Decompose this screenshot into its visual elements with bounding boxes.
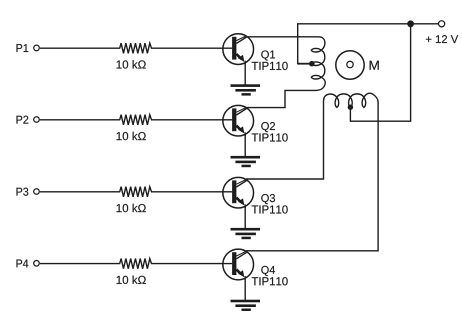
- node P2 input terminal label: [17, 116, 29, 124]
- junction dot winding L2 center tap: [348, 105, 353, 110]
- transistor Q2 collector double line: [236, 108, 246, 113]
- transistor Q3 base bar: [232, 180, 236, 203]
- terminal P4 open circle: [34, 261, 40, 267]
- wire P2 to base with resistor R2 zigzag: [40, 115, 232, 125]
- transistor Q1 base bar: [232, 37, 236, 60]
- label M motor: [370, 61, 379, 70]
- transistor Q4 collector double line: [236, 251, 246, 256]
- wire emitter Q1 to ground: [244, 61, 246, 85]
- wire P1 to base with resistor R1 zigzag: [40, 43, 232, 53]
- resistor R3 value label 10 kOhm: [117, 204, 146, 213]
- transistor Q3 circle: [223, 177, 254, 208]
- wire winding L1 center tap to +12V rail: [298, 63, 312, 65]
- label Q1: [261, 50, 275, 60]
- node P1 input terminal label: [17, 44, 29, 52]
- resistor R1 value label 10 kOhm: [117, 60, 146, 69]
- transistor Q3 emitter with arrow: [236, 198, 240, 202]
- inductor L1 motor winding 1 (vertical coil): [246, 37, 325, 108]
- transistor Q1 collector double line: [236, 36, 246, 41]
- wire emitter Q3 to ground: [244, 204, 246, 228]
- node P4 input terminal label: [17, 260, 29, 268]
- resistor R4 value label 10 kOhm: [117, 275, 146, 284]
- transistor Q2 base bar: [232, 108, 236, 131]
- wire P3 to base with resistor R3 zigzag: [40, 187, 232, 197]
- label Q3: [261, 194, 275, 204]
- wire +12V rail to supply terminal: [411, 23, 439, 25]
- terminal P3 open circle: [34, 189, 40, 195]
- label +12V supply: [426, 35, 458, 43]
- transistor Q3 collector double line: [236, 180, 246, 185]
- transistor Q4 base bar: [232, 252, 236, 275]
- motor M symbol circle: [336, 51, 364, 79]
- terminal P1 open circle: [34, 45, 40, 51]
- ground symbol under Q4: [231, 300, 261, 311]
- terminal P2 open circle: [34, 117, 40, 123]
- transistor Q4 circle: [223, 249, 254, 280]
- junction dot winding L1 center tap: [309, 61, 315, 67]
- wire emitter Q2 to ground: [244, 132, 246, 156]
- node P3 input terminal label: [17, 188, 29, 196]
- transistor Q2 emitter with arrow: [236, 126, 240, 130]
- wire P4 to base with resistor R4 zigzag: [40, 259, 232, 269]
- wire emitter Q4 to ground: [244, 276, 246, 300]
- label TIP110 for Q1: [252, 62, 288, 70]
- motor M inner circle: [347, 61, 353, 67]
- ground symbol under Q2: [231, 156, 261, 167]
- label TIP110 for Q4: [252, 277, 288, 285]
- junction dot +12V rail: [407, 20, 414, 27]
- ground symbol under Q3: [231, 228, 261, 239]
- ground symbol under Q1: [231, 84, 261, 95]
- transistor Q1 emitter with arrow: [236, 54, 240, 58]
- transistor Q1 circle: [223, 34, 254, 65]
- label TIP110 for Q2: [252, 133, 288, 141]
- wire winding L2 center tap to +12V rail: [350, 24, 410, 121]
- label Q2: [261, 122, 275, 132]
- label Q4: [261, 266, 275, 276]
- resistor R2 value label 10 kOhm: [117, 132, 146, 141]
- transistor Q2 circle: [223, 105, 254, 136]
- inductor L2 motor winding 2 (horizontal coil) with end wires to Q3 and Q4 collectors: [246, 93, 378, 251]
- label TIP110 for Q3: [252, 205, 288, 213]
- terminal +12V supply open circle: [439, 21, 445, 27]
- transistor Q4 emitter with arrow: [236, 269, 240, 273]
